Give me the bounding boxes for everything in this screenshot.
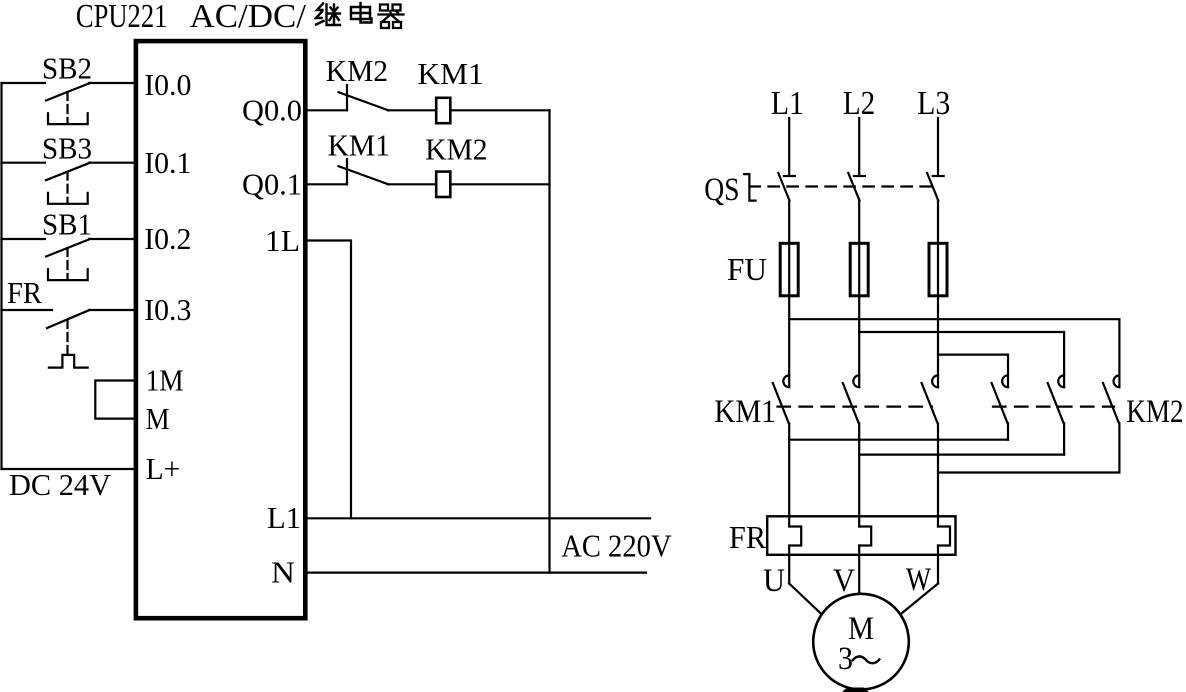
motor circle <box>813 594 909 690</box>
svg-text:Q0.1: Q0.1 <box>242 166 302 201</box>
QS linkage dashes <box>749 185 934 187</box>
tilde of 3~ <box>852 656 880 663</box>
svg-text:V: V <box>833 563 855 599</box>
svg-text:AC 220V: AC 220V <box>561 528 671 564</box>
contact KM1 NC <box>346 159 348 184</box>
KM1 contact 1 <box>783 375 789 387</box>
right rail <box>548 110 550 572</box>
crossover L2 to KM2 mid <box>859 332 1064 387</box>
heater W <box>937 516 939 526</box>
motor lead U <box>789 584 822 615</box>
svg-text:I0.2: I0.2 <box>144 221 191 256</box>
phase L1 drop <box>788 118 790 175</box>
svg-text:SB2: SB2 <box>42 51 92 86</box>
wire N <box>307 571 646 573</box>
phase L2 drop <box>858 118 860 175</box>
KM1 contact 2 <box>853 375 859 387</box>
svg-text:QS: QS <box>704 172 739 208</box>
KM2 contact 4 <box>1002 375 1008 387</box>
wire L1 <box>307 517 650 519</box>
svg-text:FR: FR <box>7 275 42 310</box>
QS blade L3 <box>927 173 938 200</box>
heater V <box>858 516 860 526</box>
svg-text:L1: L1 <box>267 500 301 535</box>
crossover L1 to KM2 right <box>789 319 1119 387</box>
contact bottom wires <box>788 423 790 516</box>
KM2 contact 6 <box>1114 375 1120 387</box>
svg-text:L1: L1 <box>771 85 804 122</box>
KM1 linkage dashes <box>778 406 933 408</box>
svg-text:N: N <box>271 555 295 590</box>
bottom crossover U <box>789 439 1008 441</box>
svg-text:L3: L3 <box>917 85 950 122</box>
svg-text:KM2: KM2 <box>326 53 389 88</box>
pushbutton SB1 <box>2 238 46 240</box>
svg-text:I0.1: I0.1 <box>144 145 191 180</box>
bottom crossover W <box>938 471 1119 473</box>
left DC rail <box>0 83 2 469</box>
contact KM2 NC <box>346 85 348 110</box>
crossover L3 to KM2 left <box>938 355 1008 388</box>
svg-text:W: W <box>906 562 932 598</box>
rung Q0.0 <box>307 109 347 111</box>
motor shaft mark <box>842 688 869 692</box>
pushbutton SB3 <box>2 162 46 164</box>
hanzi 器 <box>379 5 404 29</box>
svg-text:L2: L2 <box>843 85 875 122</box>
hanzi 继 <box>316 4 340 26</box>
KM1 contact 3 <box>932 375 938 387</box>
pushbutton SB2 <box>2 82 46 84</box>
fuse FU L1 <box>780 243 798 295</box>
fuse FU L3 <box>929 243 947 295</box>
wire 1M-M loop <box>95 381 135 419</box>
motor lead W <box>901 584 939 615</box>
svg-text:FU: FU <box>727 251 767 287</box>
QS blade L1 <box>778 173 789 200</box>
bottom crossover V <box>859 454 1064 456</box>
svg-text:KM1: KM1 <box>417 56 483 91</box>
svg-text:SB3: SB3 <box>42 130 92 165</box>
KM2 linkage dashes <box>993 406 1114 408</box>
PLC box CPU221 <box>136 41 305 618</box>
coil KM2 <box>436 172 450 197</box>
hanzi 电 <box>351 3 372 23</box>
svg-text:3: 3 <box>838 641 853 677</box>
svg-text:Q0.0: Q0.0 <box>242 93 302 128</box>
rung Q0.1 <box>307 183 347 185</box>
svg-text:I0.0: I0.0 <box>144 67 191 102</box>
fuse FU L2 <box>850 243 868 295</box>
svg-text:1M: 1M <box>146 363 184 398</box>
FR thermal box <box>767 516 955 555</box>
svg-text:I0.3: I0.3 <box>144 292 191 327</box>
svg-text:U: U <box>763 563 785 599</box>
QS handle bracket <box>744 174 755 201</box>
wire 1L <box>307 241 351 519</box>
phase L3 drop <box>937 118 939 175</box>
heater U <box>788 516 790 526</box>
svg-text:CPU221: CPU221 <box>76 0 167 35</box>
title CPU221 AC/DC/ <box>76 0 307 35</box>
svg-text:KM2: KM2 <box>1126 394 1183 430</box>
svg-text:FR: FR <box>729 519 767 555</box>
svg-text:DC 24V: DC 24V <box>9 467 112 502</box>
wire DC24V bottom to L+ <box>2 468 136 470</box>
svg-text:KM2: KM2 <box>425 131 488 166</box>
svg-text:1L: 1L <box>265 223 300 258</box>
phase wires through fuses <box>788 200 790 387</box>
svg-text:SB1: SB1 <box>42 207 92 242</box>
FR contact input <box>2 309 53 311</box>
svg-text:L+: L+ <box>146 451 181 486</box>
svg-text:M: M <box>146 401 170 436</box>
coil KM1 <box>436 98 450 123</box>
QS blade L2 <box>848 173 859 200</box>
svg-text:KM1: KM1 <box>328 127 390 162</box>
KM2 contact 5 <box>1058 375 1064 387</box>
svg-text:AC/DC/: AC/DC/ <box>190 0 307 35</box>
svg-text:KM1: KM1 <box>714 394 776 430</box>
